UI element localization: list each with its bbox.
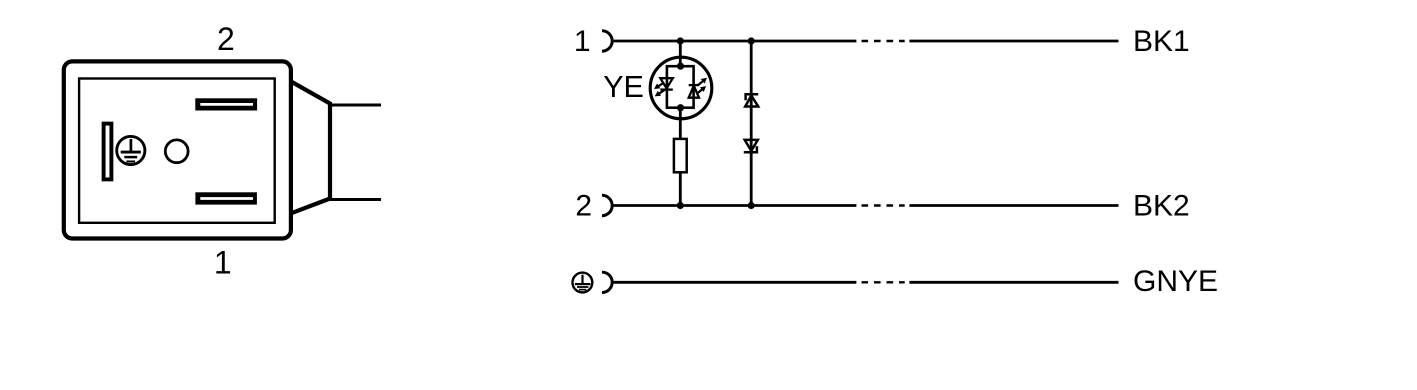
wire lamp to resistor [679, 108, 682, 138]
LED D2 light arrows [697, 78, 707, 94]
svg-text:1: 1 [214, 245, 232, 281]
cable gland [291, 82, 330, 214]
protective earth pin symbol (connector) [117, 136, 145, 164]
connector body X1 (outer housing) [64, 61, 291, 238]
keyway slot [104, 124, 112, 180]
protective earth symbol (schematic) [573, 273, 593, 293]
socket contact PE (arc) [602, 272, 612, 292]
center hole [165, 140, 188, 163]
svg-text:2: 2 [217, 21, 235, 57]
LED loop rectangle [667, 66, 694, 108]
svg-text:BK1: BK1 [1133, 25, 1190, 58]
node J2 (line1 / suppressor branch) [748, 37, 755, 44]
pin 2 slot (top) [195, 98, 257, 110]
wire BK1 dashed break [862, 40, 905, 42]
pin 1 slot (bottom) [195, 192, 257, 204]
wire GNYE left segment [614, 281, 857, 284]
node J4 (line2 / suppressor branch) [748, 202, 755, 209]
svg-text:1: 1 [574, 25, 591, 58]
node J1 (line1 / LED branch) [677, 37, 684, 44]
wire BK1 left segment [614, 40, 857, 43]
node bottom of LED loop [677, 104, 684, 111]
svg-text:YE: YE [603, 70, 644, 104]
wire GNYE dashed break [862, 281, 905, 283]
cable wire top [330, 104, 381, 107]
svg-text:2: 2 [575, 190, 592, 223]
wire resistor to line2 [679, 172, 682, 205]
cable wire bottom [330, 198, 381, 201]
wire BK2 dashed break [862, 204, 905, 206]
wire suppressor branch [750, 41, 753, 206]
socket contact 1 (arc) [602, 31, 612, 51]
zener diode Z1 (cathode up) [745, 94, 758, 106]
resistor R1 [674, 139, 687, 172]
LED D2 (right, cathode up) [689, 85, 699, 98]
wire from line1 down to lamp [679, 41, 682, 66]
wire BK1 right segment [909, 40, 1118, 43]
node J3 (line2 / LED branch) [677, 202, 684, 209]
zener diode Z2 (cathode down) [744, 140, 758, 152]
node top of LED loop [677, 63, 684, 70]
connector face (inner rectangle) [79, 79, 275, 223]
svg-text:GNYE: GNYE [1133, 265, 1218, 298]
wire BK2 right segment [909, 204, 1118, 207]
indicator lamp circle [650, 57, 712, 119]
LED D1 light arrows [654, 83, 664, 97]
LED D1 (left, cathode down) [660, 78, 673, 89]
wire BK2 left segment [614, 204, 857, 207]
svg-text:BK2: BK2 [1133, 189, 1190, 222]
socket contact 2 (arc) [602, 195, 612, 215]
wire GNYE right segment [909, 281, 1118, 284]
